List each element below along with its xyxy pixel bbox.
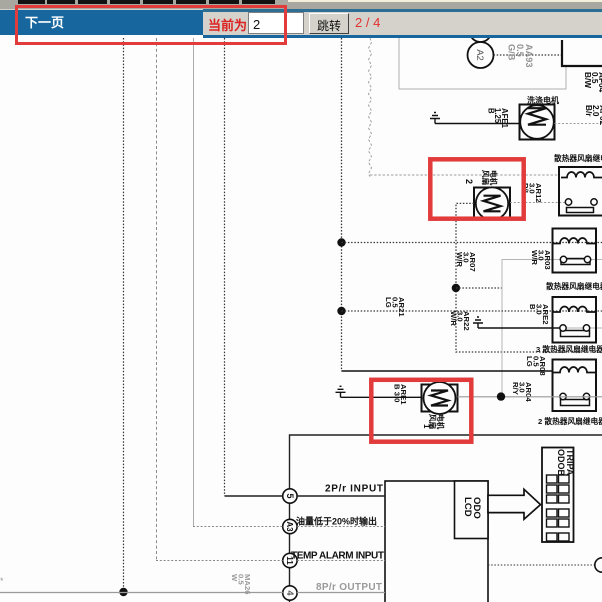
wire from A2 (494, 54, 563, 56)
wire G1 to motor M1 (435, 123, 520, 125)
svg-text:AFE11.25B: AFE11.25B (486, 108, 509, 129)
next page button (0, 10, 203, 35)
meter unit box U1 (385, 481, 488, 602)
wire bus line 2 (156, 38, 158, 561)
wire G2 to relay K3 contact (478, 327, 561, 329)
junction dot node M2 (337, 307, 345, 315)
svg-text:ODOLCD: ODOLCD (462, 497, 482, 519)
svg-text:AF022.0B/r: AF022.0B/r (584, 105, 602, 126)
wire riser AR03 (502, 260, 602, 397)
wire bus line 3 (193, 38, 195, 527)
svg-text:散热器风扇继电器: 散热器风扇继电器 (554, 153, 602, 163)
viewer toolbar (0, 9, 602, 35)
svg-text:AR073.0W/R: AR073.0W/R (455, 252, 477, 272)
annotation red rect 1 (15, 5, 287, 45)
svg-text:MA260.5W: MA260.5W (230, 574, 252, 595)
wire meter output right (488, 564, 595, 566)
svg-text:AR210.5LG: AR210.5LG (384, 297, 406, 317)
LCD box (455, 481, 489, 539)
svg-text:AA930.5G/B: AA930.5G/B (506, 44, 534, 68)
junction dot node M1 (337, 238, 345, 246)
pin circle 11 (283, 553, 297, 567)
svg-text:2P/r INPUT: 2P/r INPUT (325, 484, 383, 495)
svg-text:TEMP ALARM INPUT: TEMP ALARM INPUT (291, 551, 384, 562)
motor M3 (422, 382, 458, 414)
svg-text:散热器风扇继电器: 散热器风扇继电器 (546, 281, 602, 291)
motor M2 (474, 187, 510, 219)
wire M2 to relay K1 (510, 202, 566, 204)
ground G2 (473, 317, 483, 328)
connector box outline top (399, 38, 566, 89)
junction dot node W (452, 284, 460, 292)
pin circle 4 (283, 586, 297, 600)
wire relay1 coil feed (370, 174, 559, 176)
svg-text:8P/r OUTPUT: 8P/r OUTPUT (316, 582, 382, 593)
wire temp alarm (156, 560, 385, 562)
display P1 trip odo (542, 448, 575, 543)
connector A2 upper circle (470, 20, 492, 42)
page number input (248, 12, 304, 34)
svg-text:TRIPAODOB: TRIPAODOB (556, 449, 575, 477)
annotation red rect 3 (371, 380, 471, 442)
svg-text:AR043.0R/Y: AR043.0R/Y (511, 382, 533, 402)
wire node M2 to relay K3 coil (342, 310, 602, 312)
svg-text:*: * (0, 576, 4, 586)
svg-text:ARE1B 3.0: ARE1B 3.0 (393, 384, 408, 405)
ground G1 (430, 113, 440, 124)
wire M2 left leg (456, 203, 602, 352)
svg-text:AR033.0W/R: AR033.0W/R (530, 250, 552, 270)
svg-text:2 散热器风扇继电器: 2 散热器风扇继电器 (538, 416, 602, 426)
current page label (208, 15, 247, 34)
motor M1 (520, 105, 555, 140)
svg-text:油量低于20%时输出: 油量低于20%时输出 (296, 516, 377, 527)
annotation red rect 2 (430, 159, 523, 218)
svg-text:4: 4 (285, 590, 295, 595)
svg-text:电机风扇: 电机风扇 (481, 170, 499, 186)
junction dot on bus line 1 (119, 588, 127, 596)
svg-text:AF040.5B/W: AF040.5B/W (583, 72, 602, 93)
wire node M1 to relay K2 coil (342, 242, 602, 244)
pin circle A3 (283, 519, 297, 533)
svg-text:ARE23.0B: ARE23.0B (528, 304, 550, 325)
wire AF02 (555, 123, 602, 125)
relay K2 (553, 229, 597, 273)
junction dot node F (497, 392, 505, 400)
window chrome strip (0, 0, 602, 9)
frame corner bottom (290, 435, 602, 602)
wire bus line 4 (224, 38, 226, 496)
page indicator (355, 15, 380, 30)
harness tear line (369, 38, 372, 177)
wire G3 to motor M3 (341, 396, 422, 398)
svg-text:3 散热器风扇继电器: 3 散热器风扇继电器 (536, 344, 602, 354)
arrow to display (488, 489, 541, 519)
wire input oil (193, 526, 385, 528)
wire node M bus (341, 38, 343, 371)
ground G3 (336, 386, 346, 397)
wire node W branch (456, 287, 502, 289)
connector pin A2 (468, 42, 494, 68)
wire bus line 1 (123, 38, 125, 590)
pin circle right edge (595, 558, 602, 572)
relay K3 (553, 297, 597, 343)
component box edge right top (562, 40, 602, 66)
svg-text:2: 2 (464, 179, 474, 184)
svg-text:A2: A2 (474, 49, 485, 61)
pin circle 5 (283, 489, 297, 503)
svg-text:5: 5 (285, 493, 295, 498)
relay K1 (559, 167, 602, 216)
relay K4 (553, 360, 597, 412)
svg-text:AR223.0W/R: AR223.0W/R (449, 311, 471, 331)
wire input 2P (225, 495, 386, 497)
jump button (309, 13, 349, 34)
wire M3 to relay K4 contact (458, 396, 602, 398)
wire node M bus to relay K4 coil (342, 370, 553, 372)
svg-text:A3: A3 (285, 521, 294, 532)
wire 8P output (0, 592, 385, 594)
svg-text:1: 1 (422, 424, 431, 429)
svg-text:AR080.5LG: AR080.5LG (525, 356, 547, 376)
